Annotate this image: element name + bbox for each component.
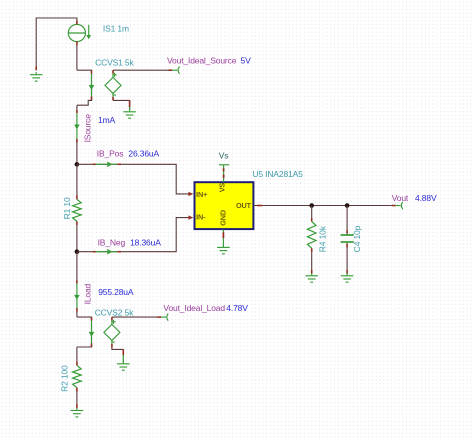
pin tick ground G4 (76, 404, 78, 408)
pin tick ground G1 (35, 67, 37, 71)
resistor R4 (307, 222, 316, 249)
svg-text:OUT: OUT (236, 201, 252, 210)
wire rail ISource to node A (76, 143, 78, 165)
svg-text:CCVS2 5k: CCVS2 5k (95, 307, 134, 317)
wire node D to C4 (346, 206, 348, 230)
wire top from ground to IS1 (36, 18, 77, 70)
resistor R2 (73, 365, 82, 387)
pin tick R1 bottom (76, 221, 78, 225)
resistor R1 (73, 199, 82, 221)
ground G1 top-left (30, 72, 43, 81)
svg-text:CCVS1 5k: CCVS1 5k (95, 58, 134, 68)
ccvs CCVS1 diamond (105, 70, 121, 100)
wire R4 to ground (311, 252, 313, 270)
svg-text:18.36uA: 18.36uA (130, 237, 161, 247)
svg-text:U5 INA281A5: U5 INA281A5 (252, 169, 303, 179)
voltage pin Vout (396, 202, 403, 209)
current arrow ISource (74, 110, 80, 143)
ccvs CCVS1 sense current arrow (89, 71, 95, 101)
svg-text:GND: GND (218, 210, 227, 226)
pin arrow IN+ (188, 192, 193, 196)
ground G3 under CCVS2 (117, 361, 130, 370)
svg-text:26.36uA: 26.36uA (128, 149, 159, 159)
ground G6 under R4 (305, 273, 318, 282)
wire CCVS2 to R2 (76, 347, 78, 362)
svg-text:IS1 1m: IS1 1m (103, 24, 129, 34)
pin tick ground G7 (346, 270, 348, 274)
wire node B to ILoad (76, 252, 78, 284)
op-amp U5 INA281A5 body (195, 182, 254, 229)
ground G7 under C4 (341, 273, 354, 282)
wire ILoad to CCVS2 (76, 312, 78, 318)
jumper Vs pin (219, 165, 229, 182)
svg-text:IB_Neg: IB_Neg (98, 237, 126, 247)
wire IB_Neg to IN- (77, 218, 189, 252)
svg-text:VS: VS (218, 183, 227, 193)
svg-text:955.28uA: 955.28uA (98, 287, 134, 297)
pin tick C4 bottom (346, 244, 348, 248)
capacitor C4 (341, 234, 354, 244)
pin arrow IN- (188, 215, 193, 219)
node B junction (75, 249, 80, 254)
svg-text:R2 100: R2 100 (60, 365, 70, 392)
node A junction (75, 162, 80, 167)
ground G2 under CCVS1 (123, 109, 136, 118)
svg-text:Vout_Ideal_Source: Vout_Ideal_Source (167, 55, 237, 65)
pin tick R4 bottom (311, 248, 313, 252)
svg-text:4.78V: 4.78V (226, 303, 248, 313)
current arrow ILoad (74, 280, 80, 311)
current arrow IB_Neg (93, 249, 121, 255)
current arrow IB_Pos (93, 162, 121, 168)
ccvs CCVS2 diamond (104, 317, 120, 347)
svg-text:5V: 5V (241, 55, 252, 65)
pin tick C4 top (346, 230, 348, 234)
pin tick R4 top (311, 218, 313, 222)
pin tick Vout (392, 205, 396, 207)
pin tick CCVS2 minus (122, 349, 124, 355)
ccvs CCVS2 sense current arrow (89, 317, 95, 347)
svg-text:Vout_Ideal_Load: Vout_Ideal_Load (163, 303, 225, 313)
pin tick Vout_Ideal_Source (169, 69, 173, 71)
ccvs CCVS2 ground stub (122, 355, 124, 362)
wire node C to R4 (311, 206, 313, 218)
wire IB_Pos to IN+ (77, 164, 189, 194)
wire R2 to ground (76, 392, 78, 405)
svg-text:R1 10: R1 10 (62, 197, 72, 219)
wire OUT to Vout pin (254, 205, 392, 207)
pin tick R2 top (76, 362, 78, 366)
svg-text:4.88V: 4.88V (415, 193, 437, 203)
ground G4 under R2 (71, 408, 84, 417)
pin tick CCVS1 minus (129, 100, 131, 107)
wire node A to R1 (76, 164, 78, 195)
svg-text:IB_Pos: IB_Pos (97, 149, 124, 159)
wire R1 to node B (76, 225, 78, 252)
svg-text:IN+: IN+ (196, 190, 207, 199)
svg-text:IN-: IN- (196, 213, 206, 222)
pin tick R1 top (76, 196, 78, 200)
ccvs CCVS1 ground stub (129, 107, 131, 110)
wire GND pin to ground (222, 230, 224, 246)
svg-text:Vs: Vs (219, 150, 229, 160)
ccvs CCVS1 sense branch wire (77, 70, 92, 105)
svg-text:Vout: Vout (392, 193, 409, 203)
wire CCVS2 plus to Vout_Ideal_Load pin (112, 316, 157, 318)
voltage pin Vout_Ideal_Source (172, 67, 179, 74)
ccvs CCVS2 sense branch wire (77, 317, 92, 347)
wire rail to ISource (76, 105, 78, 113)
ground G5 under U5 GND (217, 245, 230, 254)
svg-text:C4 10p: C4 10p (352, 225, 362, 252)
pin tick Vout_Ideal_Load (157, 316, 161, 318)
svg-text:ISource: ISource (82, 114, 92, 143)
pin tick OUT (257, 205, 262, 207)
wire IS1 to CCVS1 (76, 45, 78, 70)
pin tick ground G6 (311, 270, 313, 274)
current source IS1 (68, 21, 91, 46)
node C junction (309, 203, 314, 208)
svg-text:R4 10k: R4 10k (317, 225, 327, 252)
wire C4 to ground (346, 247, 348, 270)
svg-text:ILoad: ILoad (83, 283, 93, 304)
wire CCVS1 plus to Vout_Ideal_Source pin (113, 69, 169, 71)
node D junction (345, 203, 350, 208)
voltage pin Vout_Ideal_Load (161, 314, 168, 321)
pin tick R2 bottom (76, 388, 78, 392)
wire CCVS2 minus to ground (112, 347, 123, 355)
wire CCVS1 minus to ground (113, 100, 130, 107)
svg-text:1mA: 1mA (98, 115, 116, 125)
